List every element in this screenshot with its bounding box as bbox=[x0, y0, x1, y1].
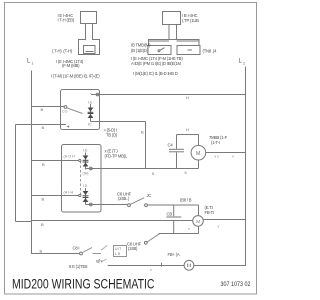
svg-text:A ID(E (PM I1 I(E) (D IB(E(1M: A ID(E (PM I1 I(E) (D IB(E(1M bbox=[131, 61, 182, 66]
svg-text:1: 1 bbox=[32, 62, 34, 66]
svg-text:8 E (1)TE8: 8 E (1)TE8 bbox=[69, 264, 88, 269]
svg-text:v: v bbox=[150, 268, 152, 272]
svg-text:(24B..): (24B..) bbox=[118, 196, 130, 201]
svg-text:H: H bbox=[186, 127, 189, 132]
svg-text:B: B bbox=[41, 222, 44, 227]
svg-text:I.E: I.E bbox=[83, 184, 88, 188]
svg-text:TB (D): TB (D) bbox=[106, 133, 118, 138]
svg-text:FB-TI: FB-TI bbox=[205, 210, 215, 215]
svg-text:IB TMBI(M): IB TMBI(M) bbox=[131, 43, 151, 48]
svg-text:(IH): (IH) bbox=[83, 172, 89, 176]
svg-text:M: M bbox=[196, 151, 201, 157]
svg-text:(FD-TP MB(L: (FD-TP MB(L bbox=[105, 154, 128, 159]
svg-text:CB: CB bbox=[167, 212, 173, 217]
svg-text:(.T-H) .(T-H): (.T-H) .(T-H) bbox=[52, 49, 73, 54]
svg-text:(F-M (MB): (F-M (MB) bbox=[62, 63, 80, 68]
svg-text:I.E: I.E bbox=[88, 101, 93, 105]
svg-text:(TN8 .(4: (TN8 .(4 bbox=[203, 49, 218, 54]
svg-text:FB+ (A: FB+ (A bbox=[168, 252, 180, 257]
svg-text:(B (1(E(D): (B (1(E(D) bbox=[131, 48, 149, 53]
svg-text:B: B bbox=[141, 130, 144, 135]
svg-text:v: v bbox=[218, 225, 220, 229]
svg-text:C4: C4 bbox=[168, 143, 174, 148]
svg-text:JC: JC bbox=[147, 193, 152, 198]
svg-text:(24B): (24B) bbox=[128, 246, 138, 251]
svg-text:I (M(1(E) IC) I1 (B-D IHB D: I (M(1(E) IC) I1 (B-D IHB D bbox=[133, 71, 178, 76]
svg-text:I (T-M) (1F-M (IBE) I(1 IF)-(E: I (T-M) (1F-M (IBE) I(1 IF)-(E) bbox=[51, 74, 100, 79]
svg-text:B: B bbox=[152, 172, 155, 176]
svg-text:B: B bbox=[42, 125, 45, 130]
svg-text:CO: CO bbox=[62, 110, 68, 114]
svg-text:B: B bbox=[41, 107, 44, 112]
svg-text:+: + bbox=[67, 125, 70, 131]
svg-text:(.TP (1UB: (.TP (1UB bbox=[182, 18, 199, 23]
svg-text:B: B bbox=[42, 197, 45, 202]
svg-text:M: M bbox=[196, 219, 200, 224]
svg-text:MID200 WIRING SCHEMATIC: MID200 WIRING SCHEMATIC bbox=[12, 277, 155, 292]
svg-text:L: L bbox=[27, 59, 31, 65]
svg-text:B: B bbox=[185, 171, 188, 175]
svg-text:H: H bbox=[186, 95, 189, 100]
svg-text:(B8 / B: (B8 / B bbox=[180, 198, 192, 203]
svg-text:u(h: u(h bbox=[96, 259, 102, 264]
svg-text:I.E: I.E bbox=[83, 149, 88, 153]
svg-text:v: v bbox=[232, 155, 234, 159]
svg-text:B: B bbox=[40, 249, 43, 254]
svg-text:-: - bbox=[90, 91, 92, 96]
svg-text:U lT: U lT bbox=[115, 247, 121, 251]
svg-text:2: 2 bbox=[243, 62, 245, 66]
svg-text:I T-H (EB): I T-H (EB) bbox=[58, 18, 75, 23]
svg-text:C8 I: C8 I bbox=[73, 246, 80, 251]
svg-text:IC: IC bbox=[88, 123, 92, 127]
svg-text:(H I-H: (H I-H bbox=[64, 191, 74, 195]
svg-text:v: v bbox=[188, 227, 190, 231]
svg-text:L D: L D bbox=[115, 252, 121, 256]
svg-text:B: B bbox=[42, 162, 45, 167]
svg-text:(1-T-I: (1-T-I bbox=[211, 140, 220, 145]
svg-text:v v: v v bbox=[215, 155, 220, 159]
svg-text:(H O H: (H O H bbox=[64, 155, 76, 159]
svg-text:307 1073 02: 307 1073 02 bbox=[221, 282, 252, 288]
svg-text:L: L bbox=[239, 59, 243, 65]
